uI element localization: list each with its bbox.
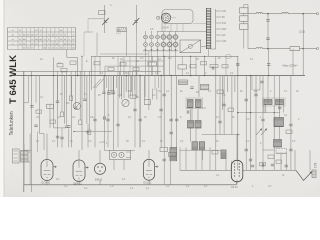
svg-text:EM 11: EM 11 xyxy=(95,178,103,182)
svg-text:··: ·· xyxy=(118,35,120,37)
svg-text:(2,5): (2,5) xyxy=(299,30,305,34)
svg-text:1M: 1M xyxy=(128,90,131,93)
svg-text:ECH4: ECH4 xyxy=(163,28,170,30)
svg-text:EBF 11: EBF 11 xyxy=(74,183,83,186)
svg-text:+1,2V: +1,2V xyxy=(99,142,106,144)
svg-text:ECH 11: ECH 11 xyxy=(42,182,51,185)
svg-text:2M: 2M xyxy=(66,102,69,105)
svg-text:1M: 1M xyxy=(168,57,171,60)
svg-text:AZ 11: AZ 11 xyxy=(231,185,238,189)
svg-text:178: 178 xyxy=(314,162,318,168)
svg-text:Telefunken: Telefunken xyxy=(9,111,15,135)
svg-text:Netz 220V~: Netz 220V~ xyxy=(283,64,299,68)
svg-text:ECL 11: ECL 11 xyxy=(144,181,153,184)
svg-text:T 645 WLK: T 645 WLK xyxy=(8,55,19,104)
svg-text:· ·: · · xyxy=(18,182,20,185)
svg-text:100: 100 xyxy=(222,10,227,13)
svg-text:MW: MW xyxy=(222,28,227,31)
